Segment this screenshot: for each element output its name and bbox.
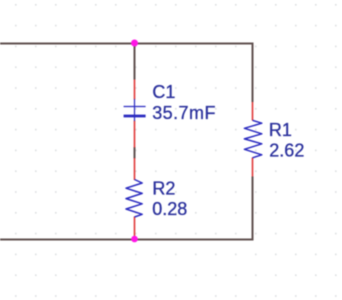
svg-text:0.28: 0.28 <box>152 199 187 219</box>
resistor R1 <box>244 120 261 158</box>
svg-text:C1: C1 <box>152 82 175 102</box>
wire bottom horizontal net <box>0 239 254 241</box>
R1 pin 2 (bottom, red) <box>252 158 254 177</box>
R1 pin 1 (top, red) <box>252 102 254 121</box>
svg-text:R1: R1 <box>269 120 292 140</box>
svg-text:2.62: 2.62 <box>269 140 304 160</box>
R2 pin 1 (top, red) <box>134 158 136 180</box>
wire right vertical upper segment <box>252 43 254 103</box>
resistor R2 <box>126 180 142 218</box>
junction node (top) <box>131 40 138 47</box>
R2 pin 2 (bottom, red) <box>134 217 136 240</box>
C1 pin 2 (bottom, red) <box>134 121 136 148</box>
C1 pin 1 (top, red) <box>134 80 136 100</box>
svg-text:35.7mF: 35.7mF <box>152 103 216 123</box>
junction node (bottom) <box>131 236 138 243</box>
wire right vertical lower segment <box>252 177 254 241</box>
wire middle inter-component segment <box>134 147 136 159</box>
svg-text:R2: R2 <box>152 179 175 199</box>
wire middle upper segment <box>134 44 136 80</box>
capacitor C1 <box>124 99 146 121</box>
wire top horizontal net <box>0 43 254 45</box>
